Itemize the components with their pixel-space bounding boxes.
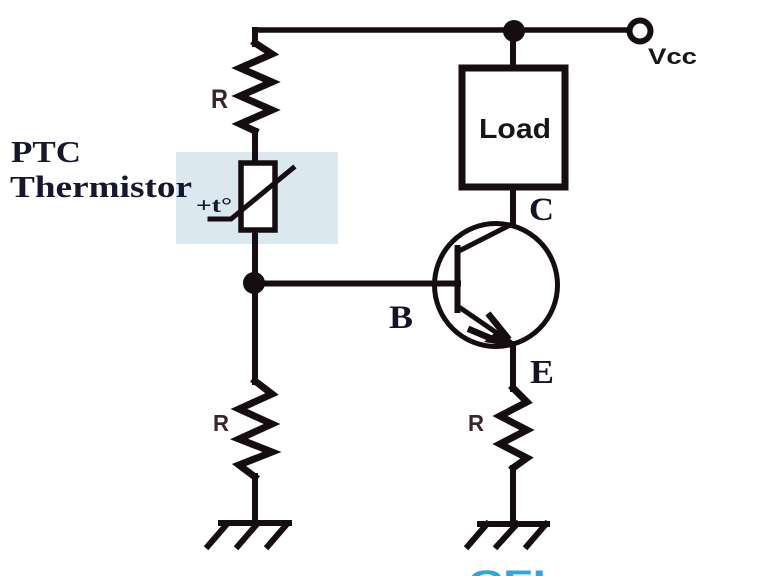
svg-text:+t°: +t° — [196, 193, 232, 217]
svg-text:PTC: PTC — [11, 134, 81, 169]
svg-text:CFI: CFI — [468, 564, 546, 576]
svg-text:R: R — [211, 84, 228, 114]
svg-text:Thermistor: Thermistor — [10, 169, 192, 204]
svg-text:Vcc: Vcc — [648, 44, 697, 69]
svg-text:B: B — [389, 300, 413, 336]
svg-text:C: C — [529, 192, 554, 228]
svg-text:Load: Load — [479, 113, 551, 144]
svg-text:E: E — [530, 354, 554, 391]
svg-text:R: R — [213, 410, 229, 436]
svg-text:R: R — [468, 410, 484, 436]
